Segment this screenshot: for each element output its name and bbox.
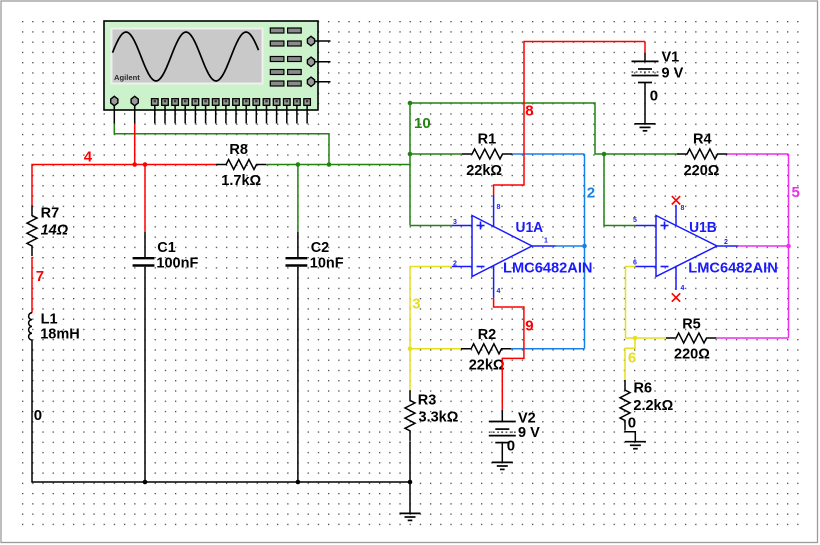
junction net 3 [408, 347, 413, 352]
resistor R4 [677, 132, 728, 179]
resistor R3 [405, 390, 459, 441]
battery V2 [489, 410, 540, 463]
resistor R5 [666, 316, 717, 362]
ground (bottom rail) [400, 482, 421, 520]
svg-text:10nF: 10nF [310, 255, 344, 271]
svg-text:R4: R4 [693, 132, 712, 148]
svg-text:3: 3 [453, 219, 457, 226]
wire net 6 to R6 (yellow) [625, 338, 635, 380]
wire net 9 U1A pin4 to V2 (red) [494, 297, 524, 410]
junction ground rail C1 [143, 480, 148, 485]
junction ground rail R3 [408, 480, 413, 485]
wire net 6 U1B -in (yellow) [626, 267, 667, 339]
svg-text:0: 0 [628, 415, 636, 432]
svg-text:4: 4 [84, 148, 93, 165]
junction net 4 scope [132, 162, 137, 167]
svg-text:9 V: 9 V [518, 425, 540, 441]
wire net 4 to C1 (red) [144, 165, 146, 233]
svg-text:LMC6482AIN: LMC6482AIN [503, 260, 593, 277]
svg-text:7: 7 [36, 268, 44, 285]
svg-text:18mH: 18mH [40, 327, 79, 343]
wire R6 to ground (black) [625, 431, 635, 442]
svg-text:L1: L1 [41, 311, 58, 327]
svg-text:4: 4 [497, 288, 501, 295]
no-connect X U1B pin 8 [672, 196, 680, 204]
svg-text:220Ω: 220Ω [674, 347, 710, 363]
svg-text:22kΩ: 22kΩ [466, 163, 502, 179]
svg-text:3.3kΩ: 3.3kΩ [419, 410, 459, 426]
inductor L1 [29, 311, 80, 342]
junction net 5 [786, 244, 791, 249]
ground (V1) [635, 124, 656, 131]
battery V1 [632, 42, 684, 124]
svg-text:2: 2 [587, 185, 595, 202]
wire scope probe 2 (red) [134, 124, 136, 165]
wire net 8 V1 to U1A pin8 (red) [494, 42, 645, 196]
svg-text:0: 0 [507, 437, 515, 454]
svg-text:2.2kΩ: 2.2kΩ [633, 398, 673, 414]
resistor R7 [27, 205, 69, 256]
junction net 4 C1 [143, 162, 148, 167]
op-amp U1B [633, 205, 778, 292]
wire net 5 to R5 (magenta) [717, 337, 789, 339]
svg-text:220Ω: 220Ω [684, 163, 720, 179]
wire net 2 to R2 (blue) [512, 348, 585, 350]
wire net 3 U1A -in (yellow) [410, 267, 452, 349]
wire net 7 (red) [31, 257, 33, 313]
wire net 10 to U1A +in (green) [410, 225, 452, 227]
wire C2 to ground rail (black) [297, 267, 299, 482]
wire net 10 R8 to junction (green) [267, 164, 410, 166]
wire net 10 vertical (green) [409, 103, 411, 226]
wire net 10 to C2 (green) [297, 165, 299, 233]
svg-text:R3: R3 [418, 393, 437, 409]
svg-text:9 V: 9 V [662, 65, 684, 81]
wire C1 to ground rail (black) [144, 267, 146, 482]
svg-text:R6: R6 [634, 380, 653, 396]
svg-text:C1: C1 [157, 240, 176, 256]
wire net 10 top run (green) [410, 103, 604, 154]
wire scope probe 1 (green) [114, 124, 329, 165]
ground (R6) [625, 442, 646, 449]
wire net 10 to U1B +in (green) [604, 154, 636, 226]
svg-text:5: 5 [633, 217, 637, 224]
resistor R2 [461, 327, 512, 373]
wire net 3 to R2 (yellow) [410, 348, 461, 350]
svg-text:V2: V2 [518, 410, 536, 426]
svg-text:10: 10 [414, 115, 431, 132]
oscilloscope XSC1 (Agilent) [104, 21, 331, 124]
svg-text:22kΩ: 22kΩ [469, 357, 505, 373]
svg-text:R8: R8 [229, 142, 248, 158]
resistor R1 [462, 132, 513, 179]
svg-text:2: 2 [724, 239, 728, 246]
svg-text:8: 8 [497, 204, 501, 211]
wire L1 to ground rail (black) [32, 340, 410, 482]
resistor R8 [216, 142, 267, 189]
junction ground rail C2 [296, 480, 301, 485]
wire net 5 R4 to vertical (magenta) [728, 153, 789, 155]
svg-text:1.7kΩ: 1.7kΩ [221, 173, 261, 189]
junction net 10 R1 [408, 152, 413, 157]
svg-text:V1: V1 [662, 49, 680, 65]
svg-text:C2: C2 [311, 240, 330, 256]
svg-text:100nF: 100nF [156, 255, 198, 271]
junction net 6 [633, 336, 638, 341]
wire net 5 from U1B output (magenta) [738, 245, 789, 247]
wire R3 to ground rail (black) [409, 441, 411, 482]
svg-text:U1A: U1A [516, 219, 544, 236]
wire net 10 to R4 (green) [604, 153, 677, 155]
svg-text:R2: R2 [478, 327, 497, 343]
svg-text:LMC6482AIN: LMC6482AIN [688, 260, 778, 277]
svg-text:0: 0 [34, 407, 42, 424]
wire net 3 to R3 (yellow) [409, 349, 411, 391]
wire net 2 vertical (blue) [584, 154, 586, 349]
svg-text:U1B: U1B [689, 219, 717, 236]
svg-text:0: 0 [650, 88, 658, 105]
junction net 10 U1B [602, 152, 607, 157]
svg-text:8: 8 [525, 103, 533, 120]
svg-text:14Ω: 14Ω [41, 222, 69, 238]
svg-text:1: 1 [544, 238, 548, 245]
junction net 2 [582, 244, 587, 249]
junction net 10 top [408, 101, 413, 106]
svg-text:Agilent: Agilent [114, 73, 140, 82]
svg-text:9: 9 [525, 318, 533, 335]
svg-text:4: 4 [681, 285, 685, 292]
svg-text:6: 6 [633, 260, 637, 267]
svg-text:6: 6 [628, 350, 636, 367]
svg-text:R5: R5 [682, 316, 701, 332]
wire net 2 R1 to vertical (blue) [513, 153, 585, 155]
svg-text:R7: R7 [41, 206, 60, 222]
svg-text:8: 8 [681, 205, 685, 212]
svg-text:2: 2 [453, 260, 457, 267]
op-amp U1A [452, 195, 593, 297]
ground (V2) [492, 462, 513, 469]
no-connect X U1B pin 4 [672, 293, 680, 301]
wire net 4 (red) [32, 165, 216, 206]
capacitor C1 [133, 232, 199, 271]
capacitor C2 [286, 232, 344, 271]
svg-text:R1: R1 [478, 132, 497, 148]
junction net 10 scope [327, 162, 332, 167]
resistor R6 [620, 380, 674, 431]
wire net 2 from U1A output (blue) [556, 245, 585, 247]
svg-text:5: 5 [792, 184, 800, 201]
svg-text:3: 3 [412, 296, 420, 313]
wire net 10 to R1 (green) [410, 153, 462, 155]
wire net 5 vertical (magenta) [788, 154, 790, 338]
junction net 10 C2 [296, 162, 301, 167]
